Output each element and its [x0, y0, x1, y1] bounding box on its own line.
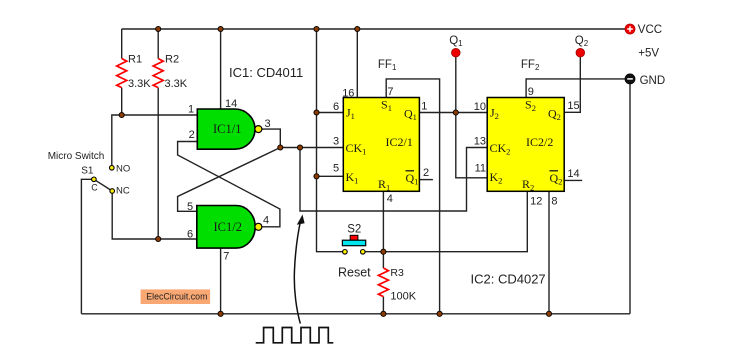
wire NO branch: [112, 115, 122, 166]
wire J1K1 vertical from VCC: [317, 29, 344, 252]
svg-text:3: 3: [265, 118, 271, 130]
svg-text:6: 6: [333, 101, 339, 113]
svg-text:VCC: VCC: [638, 24, 662, 36]
junction J1K1 top rail: [314, 26, 319, 31]
wire Q1 to J2: [419, 112, 487, 114]
node VCC terminal: [625, 24, 635, 34]
svg-text:5: 5: [187, 201, 193, 213]
svg-text:GND: GND: [640, 75, 666, 87]
wire pin7 ground: [220, 248, 222, 314]
junction J1 input: [314, 110, 319, 115]
op-amp gate IC1/2 NAND: [197, 206, 262, 249]
switch S1 micro switch: [92, 166, 115, 194]
svg-text:IC1/2: IC1/2: [214, 220, 242, 234]
junction reset node: [381, 249, 386, 254]
wire cross diagonal pin2 to output4: [178, 142, 280, 227]
wire clock waveform: [256, 328, 334, 343]
svg-text:S2: S2: [347, 223, 361, 235]
junction pin16 top rail: [355, 26, 360, 31]
IC2/2 flip-flop box: [487, 98, 564, 193]
junction NAND1 output node: [278, 145, 283, 150]
svg-text:3: 3: [333, 136, 339, 148]
junction R3 ground rail: [381, 311, 386, 316]
wire R3 vertical: [382, 252, 384, 314]
resistor R3: [378, 268, 388, 297]
wire pin8 vertical: [548, 191, 550, 313]
junction R2 top rail: [156, 26, 161, 31]
svg-text:S1: S1: [81, 165, 94, 176]
resistor R1: [117, 59, 127, 88]
svg-text:+5V: +5V: [638, 48, 659, 60]
svg-text:1: 1: [188, 104, 194, 116]
svg-text:15: 15: [567, 100, 579, 112]
junction Q1 J2 K2 node: [453, 110, 458, 115]
junction K1 input: [314, 174, 319, 179]
svg-text:11: 11: [475, 163, 486, 175]
svg-text:7: 7: [387, 86, 393, 98]
svg-text:16: 16: [342, 87, 354, 99]
svg-text:IC2: CD4027: IC2: CD4027: [471, 271, 546, 286]
op-amp gate IC1/1 NAND: [197, 109, 262, 149]
svg-text:12: 12: [530, 196, 542, 208]
wire pin9 to GND: [526, 79, 630, 314]
wire Q1 terminal drop: [455, 55, 457, 113]
junction R1 bottom node: [119, 112, 124, 117]
wire R1 pin4 vertical: [382, 191, 384, 251]
wire NAND1 output to CK1: [262, 129, 344, 147]
wire Q2bar stub: [564, 179, 582, 181]
svg-text:3.3K: 3.3K: [128, 78, 151, 90]
junction CK link node: [297, 145, 302, 150]
ElecCircuit.com badge: [141, 289, 211, 304]
svg-text:8: 8: [551, 196, 557, 208]
wire pin1 input: [122, 114, 198, 116]
wire FF1 S1 pin7 to bottom rail: [386, 79, 439, 314]
wire pin14 vertical: [220, 29, 222, 110]
svg-text:Micro Switch: Micro Switch: [48, 151, 105, 162]
svg-text:14: 14: [567, 168, 579, 180]
node Q1 terminal: [452, 48, 461, 57]
svg-text:ElecCircuit.com: ElecCircuit.com: [146, 292, 207, 302]
svg-text:IC1/1: IC1/1: [213, 122, 241, 136]
wire reset line to pin12: [363, 191, 528, 251]
svg-text:7: 7: [223, 251, 229, 263]
junction S1FF ground rail: [437, 311, 442, 316]
svg-text:NO: NO: [116, 164, 130, 175]
junction pin7 ground rail: [218, 311, 223, 316]
svg-text:R2: R2: [165, 54, 179, 66]
resistor R2: [153, 59, 163, 88]
junction pin14 top rail: [218, 26, 223, 31]
svg-text:6: 6: [187, 229, 193, 241]
wire top VCC rail: [122, 28, 627, 30]
svg-text:2: 2: [189, 129, 195, 141]
svg-text:C: C: [91, 183, 98, 193]
wire K2 branch: [456, 113, 487, 178]
svg-text:Reset: Reset: [338, 265, 371, 279]
svg-text:100K: 100K: [390, 291, 416, 303]
ground GND terminal: [625, 74, 635, 84]
wire pin15 to Q2 terminal: [564, 55, 580, 112]
svg-text:10: 10: [474, 101, 486, 113]
svg-text:5: 5: [333, 163, 339, 175]
svg-text:IC1: CD4011: IC1: CD4011: [229, 65, 303, 80]
svg-text:2: 2: [423, 167, 429, 179]
wire clock link CK1-CK2: [300, 148, 487, 212]
junction pin8 ground rail: [546, 311, 551, 316]
junction R2 bottom NC node: [156, 236, 161, 241]
svg-text:1: 1: [421, 101, 427, 113]
svg-text:R1: R1: [128, 54, 142, 66]
svg-text:IC2/2: IC2/2: [526, 135, 553, 149]
wire pin16 vertical: [356, 29, 358, 98]
wire bottom ground rail: [81, 313, 630, 315]
svg-text:IC2/1: IC2/1: [386, 135, 413, 149]
svg-text:4: 4: [387, 193, 393, 205]
svg-text:14: 14: [225, 98, 237, 110]
IC2/1 flip-flop box: [343, 98, 419, 193]
wire R2 branch vertical: [157, 29, 159, 239]
wire pin6 to NC: [112, 193, 197, 239]
wire arrow pointer: [294, 215, 304, 324]
svg-text:4: 4: [263, 215, 269, 227]
svg-text:3.3K: 3.3K: [165, 78, 188, 90]
wire cross diagonal to pin5: [178, 148, 281, 212]
wire K1 input: [317, 175, 344, 177]
switch S2 push button: [342, 235, 365, 254]
wire J1 input: [317, 112, 344, 114]
wire R1 branch vertical: [121, 29, 123, 115]
svg-text:13: 13: [474, 136, 486, 148]
wire Q1bar stub: [419, 179, 433, 181]
node Q2 terminal: [576, 48, 585, 57]
svg-text:9: 9: [528, 86, 534, 98]
wire S1 common to ground rail: [81, 179, 94, 313]
svg-text:R3: R3: [390, 267, 404, 279]
svg-text:NC: NC: [116, 186, 130, 197]
